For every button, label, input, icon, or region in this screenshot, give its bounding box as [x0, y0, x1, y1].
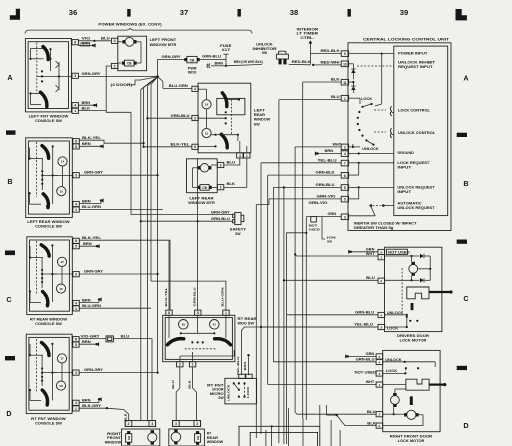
svg-text:BRN: BRN	[215, 61, 224, 65]
switch RT FNT WINDOW CONSOLE SW switch arc 1	[42, 343, 50, 356]
RT REAR WINDOW MTR motor M	[171, 430, 181, 445]
wire YEL-BLU to pin 7	[261, 158, 341, 162]
switch LEFT REAR WINDOW CONSOLE SW switch arc 2	[43, 194, 48, 208]
wire RED-BLK to pin 9	[310, 49, 341, 53]
caption RT FNT DOOR MICRO SW	[207, 383, 224, 400]
svg-text:UNLOCK REQUEST: UNLOCK REQUEST	[397, 186, 435, 190]
svg-text:1: 1	[246, 154, 248, 158]
LEFT REAR WINDOW SW pin 3	[192, 115, 198, 120]
wire BLK from RT REAR WDO SW pin 1	[187, 367, 196, 421]
CENTRAL LOCKING CONTROL UNIT pin 3	[341, 214, 348, 220]
svg-text:15: 15	[205, 131, 209, 135]
label LOCK REQUEST INPUT	[397, 161, 430, 170]
svg-text:4: 4	[379, 360, 381, 364]
row tick B/C right	[457, 240, 467, 244]
wire BRN stub below pin 6	[78, 42, 96, 48]
label UNLOCK relay	[362, 147, 379, 151]
wire BLK-GRY from D pin 1	[79, 404, 109, 409]
unit CENTRAL LOCKING CONTROL UNIT outer box	[348, 43, 451, 231]
row label D left	[6, 409, 11, 418]
RIGHT FRONT DOOR LOCK MOTOR pin 2	[376, 412, 383, 417]
corner registration mark top-left	[10, 9, 20, 20]
caption LEFT REAR WINDOW MTR	[188, 196, 215, 205]
svg-text:14: 14	[61, 160, 65, 164]
svg-text:2: 2	[220, 186, 222, 190]
LEFT REAR WINDOW MTR pin 2	[217, 185, 223, 190]
svg-text:CENTRAL LOCKING CONTROL UNIT: CENTRAL LOCKING CONTROL UNIT	[363, 38, 450, 42]
svg-text:3: 3	[379, 372, 381, 376]
RIGHT FRONT DOOR LOCK MOTOR pin 1	[376, 382, 383, 387]
svg-text:8: 8	[168, 311, 170, 315]
switch RT FNT WINDOW CONSOLE SW indicator lamp 18	[56, 381, 65, 390]
LEFT FRONT WINDOW MTR breaker CB	[118, 60, 137, 66]
svg-text:BRN: BRN	[243, 362, 247, 371]
svg-text:6: 6	[379, 424, 381, 428]
svg-text:DRIVERS DOOR: DRIVERS DOOR	[397, 334, 430, 338]
svg-text:RIGHT FRONT DOOR: RIGHT FRONT DOOR	[390, 435, 433, 439]
CENTRAL LOCKING CONTROL UNIT pin 9	[341, 51, 348, 57]
svg-text:3: 3	[75, 273, 77, 277]
svg-text:RT REAR WINDOW: RT REAR WINDOW	[30, 318, 68, 322]
svg-text:BLU-GRN: BLU-GRN	[221, 288, 225, 307]
rf latch mechanism	[383, 379, 447, 390]
svg-text:10: 10	[343, 62, 347, 66]
wire bottom stub a	[287, 408, 289, 446]
svg-text:UNLOCK: UNLOCK	[227, 385, 231, 401]
label LOCK relay	[361, 97, 373, 101]
switch RT FNT WINDOW CONSOLE SW	[26, 334, 72, 413]
caption RT REAR WINDOW CONSOLE SW	[30, 318, 68, 327]
svg-text:LOCK MOTOR: LOCK MOTOR	[400, 338, 427, 342]
wire GRN-GRY to safety sw	[131, 210, 233, 214]
rf lock motor M bottom	[404, 410, 418, 419]
label UNLOCK drivers	[387, 311, 404, 315]
row label C right	[463, 294, 468, 303]
LEFT REAR WINDOW MTR pin 3	[217, 162, 223, 167]
wire pin 8 to lock request	[349, 163, 359, 175]
svg-text:2: 2	[114, 64, 116, 68]
svg-text:LOCK CONTROL: LOCK CONTROL	[398, 108, 431, 112]
svg-text:5: 5	[197, 311, 199, 315]
wire GRN-VIO bus vertical	[255, 205, 257, 439]
wire BLU-GRN from C pin 1	[79, 304, 151, 308]
wire pin 1 lock common	[349, 98, 360, 104]
switch LEFT FNT WINDOW CONSOLE SW switch arc 2	[40, 92, 46, 107]
svg-text:INERTIA SW CLOSED W/ IMPACT: INERTIA SW CLOSED W/ IMPACT	[354, 221, 417, 225]
RT REAR WINDOW MTR pin 3	[173, 421, 180, 427]
caption PWR WDO	[188, 66, 197, 74]
caption DRIVERS DOOR LOCK MOTOR	[397, 334, 430, 343]
svg-text:5: 5	[344, 198, 346, 202]
wire BRN from B pin 5	[79, 142, 104, 148]
row tick C/D right	[457, 366, 467, 370]
svg-text:LOCK REQUEST: LOCK REQUEST	[397, 161, 430, 165]
svg-text:1: 1	[380, 256, 382, 260]
LEFT REAR WINDOW SW lamp 19	[202, 100, 211, 109]
svg-text:YEL-BLU: YEL-BLU	[318, 158, 338, 162]
switch RT FNT WINDOW CONSOLE SW switch arc 2	[42, 390, 47, 405]
svg-text:POWER WINDOWS (EX. CONV): POWER WINDOWS (EX. CONV)	[98, 22, 162, 26]
switch RT REAR WINDOW CONSOLE SW indicator lamp 16	[56, 284, 65, 293]
fuse #17 stub	[220, 44, 232, 65]
row label D right	[463, 421, 468, 430]
rf unlock contact wiring	[383, 361, 435, 375]
svg-text:A: A	[7, 73, 12, 82]
motor unit RT REAR WINDOW MTR	[169, 429, 205, 446]
label LOCK rf	[386, 369, 398, 373]
svg-text:WINDOW: WINDOW	[105, 440, 122, 444]
svg-text:CB: CB	[190, 58, 195, 62]
wire BLU motor to switch	[224, 158, 240, 165]
svg-text:39: 39	[400, 8, 408, 17]
svg-text:3: 3	[220, 163, 222, 167]
svg-text:BLK: BLK	[82, 106, 91, 110]
svg-text:38: 38	[290, 8, 298, 17]
wire bottom stub c	[330, 420, 332, 446]
RT FNT DOOR MICRO SW contacts	[227, 382, 251, 401]
RT REAR WDO SW pin 5	[195, 310, 201, 315]
header brace	[25, 28, 252, 33]
CENTRAL LOCKING CONTROL UNIT pin 1	[341, 95, 348, 101]
svg-text:CB: CB	[202, 186, 207, 190]
svg-text:SW: SW	[218, 396, 224, 400]
switch LEFT FNT WINDOW CONSOLE SW switch arc 1	[43, 47, 48, 60]
wire BLK to rf pin 6	[336, 414, 377, 426]
svg-text:5: 5	[75, 245, 77, 249]
wire pin 5 to unlock request	[349, 187, 359, 199]
RT REAR WINDOW MTR breaker CB	[195, 431, 201, 445]
switch LEFT FNT WINDOW CONSOLE SW pin 6	[72, 40, 78, 45]
svg-text:A: A	[463, 73, 468, 82]
wire fan diagonal 3	[147, 77, 157, 421]
wire BRN micro sw stub	[243, 354, 250, 375]
wire BLK from pin 1	[78, 106, 106, 110]
wire VIO from pin 6	[78, 37, 96, 42]
svg-text:2: 2	[380, 279, 382, 283]
svg-text:C: C	[463, 294, 468, 303]
caption SAFETY SW	[230, 228, 247, 236]
svg-text:5: 5	[75, 343, 77, 347]
svg-text:BLU: BLU	[366, 276, 375, 280]
svg-text:NOT USED: NOT USED	[355, 370, 377, 374]
wire BRN inline connector	[207, 61, 226, 68]
wire GRN to pin 3	[306, 212, 341, 216]
svg-text:5: 5	[379, 355, 381, 359]
inline connector on VIO-GRY/BLU wire	[106, 336, 113, 342]
junction interior lt timer	[312, 64, 314, 66]
DRIVERS DOOR LOCK MOTOR pin A	[378, 249, 385, 254]
column tick 38/39	[348, 9, 351, 17]
drivers lock wiring top	[385, 255, 432, 281]
switch D internal wiring	[29, 339, 72, 404]
CENTRAL LOCKING CONTROL UNIT pin 7	[341, 160, 348, 166]
switch RT FNT WINDOW CONSOLE SW indicator lamp 17	[57, 354, 66, 363]
relay contact arc	[357, 103, 375, 146]
switch RT FNT WINDOW CONSOLE SW pin 5	[73, 342, 79, 347]
wire GRN-BLU to fuse	[200, 55, 226, 60]
wire WHT to pin 2	[295, 143, 341, 147]
label NOT USED drivers	[386, 249, 410, 254]
svg-text:GRN-GRY: GRN-GRY	[162, 55, 182, 59]
column label 36	[69, 8, 77, 17]
wire pin 4 ground row	[349, 152, 394, 154]
svg-text:BRN: BRN	[82, 398, 91, 402]
svg-text:3: 3	[194, 116, 196, 120]
rf actuator rod	[410, 396, 413, 405]
wire GRN arrow stub pin 5	[345, 352, 376, 358]
svg-text:17: 17	[60, 357, 64, 361]
caption CENTRAL LOCKING CONTROL UNIT	[363, 38, 450, 42]
svg-text:CONSOLE SW: CONSOLE SW	[35, 119, 62, 123]
switch LEFT REAR WINDOW CONSOLE SW pin 4	[73, 201, 79, 206]
switch LEFT REAR WINDOW CONSOLE SW indicator lamp 15	[57, 187, 66, 196]
switch LEFT REAR WINDOW CONSOLE SW pin 1	[73, 207, 79, 212]
wire BRN from C pin 4	[79, 297, 102, 302]
RT REAR WDO SW internal wiring	[169, 315, 234, 361]
wire BLK motor to switch	[224, 158, 247, 187]
caption LEFT FRONT WINDOW MTR	[150, 38, 178, 47]
svg-text:4: 4	[75, 202, 77, 206]
svg-text:RT REAR: RT REAR	[238, 317, 257, 321]
svg-text:1: 1	[74, 109, 76, 113]
switch RT REAR WINDOW CONSOLE SW pin 3	[73, 272, 79, 277]
svg-text:BLK-YEL: BLK-YEL	[82, 236, 101, 240]
caption RT REAR WDO SW	[238, 317, 257, 326]
unit RIGHT FRONT DOOR LOCK MOTOR box	[383, 350, 440, 431]
svg-text:GRN-BLU: GRN-BLU	[316, 183, 336, 187]
wire GRN-BLU label RT REAR WDO SW	[192, 288, 196, 307]
wire YEL-BLU micro sw riser	[236, 327, 376, 376]
connector SAFETY SW	[233, 212, 244, 224]
svg-text:#17: #17	[222, 48, 231, 52]
label NOT USED rf	[355, 370, 377, 374]
switch RT REAR WINDOW CONSOLE SW indicator lamp 15	[57, 257, 66, 266]
switch C internal wiring	[29, 241, 72, 306]
svg-text:GRN-BLU: GRN-BLU	[211, 217, 231, 221]
motor unit LEFT REAR WINDOW MTR	[187, 159, 218, 193]
svg-text:3: 3	[151, 422, 153, 426]
caption RT REAR WINDOW MTR	[207, 432, 224, 444]
unit bottom lock motor box (cut off)	[239, 426, 320, 446]
RIGHT FRONT WINDOW MTR breaker CB	[126, 431, 132, 445]
svg-text:6: 6	[194, 145, 196, 149]
svg-text:SW: SW	[262, 51, 268, 55]
wire BRN from C pin 5	[79, 242, 100, 248]
wire GRN-BLU to safety sw	[141, 217, 233, 221]
svg-text:REQUEST INPUT: REQUEST INPUT	[398, 65, 434, 69]
label UNLOCK rf	[385, 358, 402, 362]
svg-text:GRN-BLU: GRN-BLU	[356, 358, 376, 362]
svg-text:WINDOW: WINDOW	[207, 440, 224, 444]
svg-text:LEFT FNT WINDOW: LEFT FNT WINDOW	[29, 115, 69, 119]
wire GRN-GRY motor feed	[158, 55, 186, 60]
junction node window feed fan	[156, 75, 159, 78]
switch RT REAR WINDOW CONSOLE SW switch arc 1	[41, 245, 49, 256]
svg-text:20: 20	[182, 323, 186, 327]
svg-text:BLU: BLU	[331, 95, 340, 99]
switch LEFT REAR WINDOW CONSOLE SW pin 8	[73, 139, 79, 144]
svg-text:4: 4	[239, 154, 241, 158]
RIGHT FRONT DOOR LOCK MOTOR pin 5	[376, 354, 383, 359]
wire BLU to right front window motor	[113, 334, 152, 420]
svg-text:5: 5	[75, 145, 77, 149]
junction micro sw YEL-BLU	[260, 326, 262, 328]
svg-text:3: 3	[380, 325, 382, 329]
wire fan diagonal 2	[144, 77, 158, 147]
wire GRN-GRY trunk vertical	[157, 59, 159, 373]
svg-text:2: 2	[128, 422, 130, 426]
unit DRIVERS DOOR LOCK MOTOR box	[385, 247, 442, 331]
note (4 DOOR)	[111, 77, 158, 87]
svg-text:CONSOLE SW: CONSOLE SW	[35, 322, 62, 326]
svg-text:4: 4	[194, 87, 196, 91]
LEFT REAR WINDOW SW switch arc top	[222, 93, 227, 107]
DRIVERS DOOR LOCK MOTOR pin 2	[378, 278, 385, 283]
svg-text:3: 3	[75, 371, 77, 375]
svg-text:UNLOCK CONTROL: UNLOCK CONTROL	[398, 131, 436, 135]
svg-text:18: 18	[59, 384, 63, 388]
svg-text:BLK: BLK	[227, 182, 236, 186]
relay coil LOCK CONTROL	[374, 106, 394, 115]
switch B internal wiring	[29, 142, 73, 207]
svg-text:15: 15	[60, 260, 64, 264]
RT REAR WDO SW lamp 21	[210, 320, 220, 330]
svg-text:1: 1	[225, 311, 227, 315]
breaker CB PWR WDO	[184, 56, 199, 62]
caption RIGHT FRONT DOOR LOCK MOTOR	[390, 435, 433, 444]
svg-text:3: 3	[75, 174, 77, 178]
svg-text:BLK: BLK	[331, 78, 340, 82]
RIGHT FRONT WINDOW MTR connector bar	[125, 421, 155, 427]
svg-text:1: 1	[344, 97, 346, 101]
svg-text:YEL-BLU: YEL-BLU	[236, 357, 240, 376]
wire pin 2 unlock	[349, 144, 360, 148]
svg-text:1: 1	[75, 208, 77, 212]
LEFT REAR WINDOW MTR motor M	[193, 164, 218, 188]
rf bottom wiring	[383, 389, 423, 426]
svg-text:WHT: WHT	[333, 143, 342, 147]
LEFT REAR WINDOW SW pin 1 bottom	[244, 153, 250, 158]
wire pin 11 diode chain	[349, 81, 355, 93]
svg-text:GRN-BLU: GRN-BLU	[192, 288, 196, 307]
note IGN SW	[322, 217, 337, 244]
label UNLOCK INHIBIT REQUEST INPUT	[398, 61, 436, 70]
svg-text:9: 9	[344, 52, 346, 56]
svg-text:4: 4	[380, 313, 382, 317]
switch LEFT REAR WINDOW CONSOLE SW switch arc 1	[42, 146, 49, 159]
caption INTERIOR LT TIMER CTRL	[297, 27, 320, 39]
row label A right	[463, 73, 468, 82]
wire BLU bus vertical	[278, 100, 280, 443]
CENTRAL LOCKING CONTROL UNIT pin 5	[341, 196, 348, 202]
wire GRN-BLK bus vertical	[267, 175, 269, 384]
wire BRN (OR WHT-BLK) to unlock inhibitor sw	[225, 60, 263, 67]
switch A internal wiring	[29, 43, 71, 108]
caption RIGHT FRONT WINDOW	[105, 432, 122, 444]
LEFT REAR WINDOW SW internal wiring	[198, 89, 247, 153]
switch RT FNT WINDOW CONSOLE SW pin 1	[73, 406, 79, 411]
corner registration mark top-right	[456, 9, 467, 20]
svg-text:LOCK MOTOR: LOCK MOTOR	[398, 439, 425, 443]
svg-text:1: 1	[192, 363, 194, 367]
wire GRN-GRY from pin 3 to junction	[78, 72, 158, 77]
label GROUND	[397, 151, 414, 155]
RT REAR WDO SW pin 8	[166, 310, 172, 315]
switch RT REAR WDO SW	[163, 315, 235, 361]
diode D1	[351, 69, 355, 73]
wire GRN-BLU bus vertical drivers	[287, 232, 308, 444]
svg-text:GRN-BLU: GRN-BLU	[355, 310, 375, 314]
label UNLOCK CONTROL	[398, 131, 436, 135]
svg-text:CB: CB	[127, 62, 132, 66]
header label POWER WINDOWS (EX. CONV)	[98, 22, 162, 26]
svg-text:6: 6	[344, 186, 346, 190]
wire GRN arrow stub pin A	[348, 248, 378, 254]
svg-text:7: 7	[344, 162, 346, 166]
caption LEFT FNT WINDOW CONSOLE SW	[29, 115, 69, 124]
svg-text:19: 19	[205, 103, 209, 107]
wire fan diagonal 4	[151, 77, 158, 282]
wire GRN-VIO to pin 5	[256, 195, 341, 205]
wire power input row	[349, 53, 394, 55]
wire pin 6 unlock request	[349, 186, 394, 188]
svg-text:LEFT REAR WINDOW: LEFT REAR WINDOW	[27, 220, 70, 224]
svg-text:BLK-YEL: BLK-YEL	[171, 142, 190, 146]
svg-text:LOCK: LOCK	[361, 97, 373, 101]
switch RT REAR WINDOW CONSOLE SW pin 1	[73, 306, 79, 311]
switch RT FNT DOOR MICRO SW	[225, 378, 257, 404]
svg-text:1: 1	[75, 407, 77, 411]
switch LEFT REAR WINDOW CONSOLE SW	[26, 138, 73, 218]
svg-text:21: 21	[213, 323, 217, 327]
wire YEL-BLU to drivers pin 3	[261, 323, 378, 327]
switch RT REAR WINDOW CONSOLE SW switch arc 2	[43, 292, 48, 306]
RT FNT DOOR MICRO SW pin a	[239, 374, 245, 378]
svg-text:BLK: BLK	[187, 379, 191, 389]
svg-text:1: 1	[75, 307, 77, 311]
svg-text:8: 8	[344, 174, 346, 178]
caption UNLOCK INHIBITOR SW	[252, 43, 277, 55]
switch LEFT REAR WINDOW CONSOLE SW pin 3	[73, 173, 79, 178]
RT REAR WDO SW switch arc left	[167, 339, 183, 345]
row tick B/C left	[5, 251, 15, 256]
svg-text:UNLOCK INHIBIT: UNLOCK INHIBIT	[398, 61, 436, 65]
switch RT FNT WINDOW CONSOLE SW pin 8	[73, 337, 79, 342]
label AUTOMATIC UNLOCK REQUEST	[397, 201, 435, 210]
svg-text:4: 4	[74, 104, 76, 108]
wire BLU-GRN to LEFT REAR WINDOW SW pin 4	[163, 84, 192, 88]
row tick A/B left	[6, 130, 16, 134]
svg-text:D: D	[463, 421, 468, 430]
wire BLU-GRN from B pin 1	[79, 205, 163, 209]
svg-text:BRN: BRN	[82, 298, 91, 302]
svg-text:GRN-BLU: GRN-BLU	[171, 114, 191, 118]
row label C left	[6, 295, 11, 304]
wire BLU from RT REAR WDO SW pin 2	[171, 367, 180, 421]
wire WHT to rf pin 1	[268, 380, 376, 384]
svg-text:POWER INPUT: POWER INPUT	[398, 52, 428, 56]
wire BLK-YEL from C pin 8	[79, 236, 170, 310]
svg-text:WHT: WHT	[366, 380, 375, 384]
switch LEFT FNT WINDOW CONSOLE SW pin 3	[72, 73, 78, 78]
svg-text:BLU-GRN: BLU-GRN	[82, 205, 102, 209]
svg-text:WHT: WHT	[366, 252, 375, 256]
wire BLK-YEL to LEFT REAR WINDOW SW pin 6	[143, 142, 192, 148]
wire trunk vertical from motor return	[130, 112, 132, 214]
svg-text:WINDOW: WINDOW	[254, 118, 271, 122]
RT REAR WINDOW MTR pin 2	[194, 421, 201, 427]
wire fan diagonal 5	[158, 77, 163, 89]
